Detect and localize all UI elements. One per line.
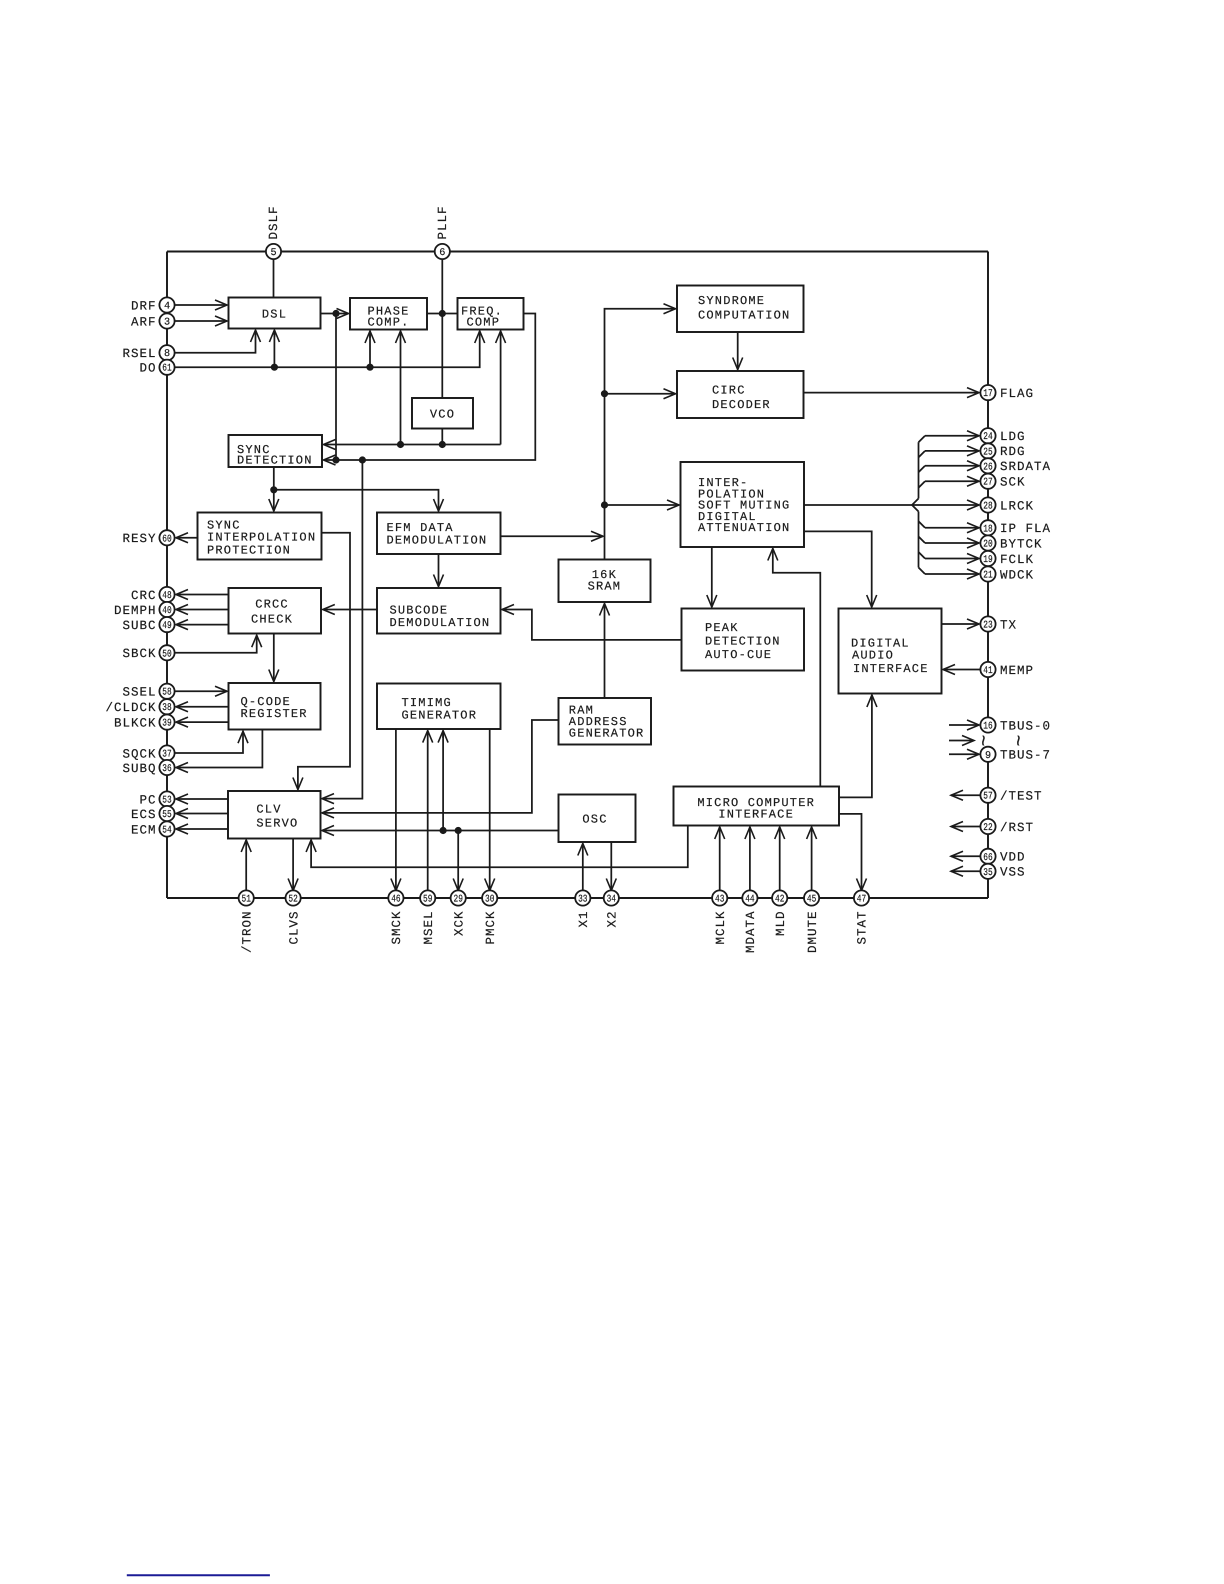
svg-text:DEMPH: DEMPH: [114, 604, 157, 618]
svg-text:PC: PC: [139, 793, 156, 807]
svg-text:27: 27: [983, 478, 992, 489]
svg-text:CIRC: CIRC: [712, 383, 746, 397]
svg-text:42: 42: [775, 895, 784, 906]
svg-text:SUBC: SUBC: [122, 619, 156, 633]
svg-text:46: 46: [391, 895, 400, 906]
svg-text:3: 3: [164, 318, 170, 329]
svg-text:PEAK: PEAK: [705, 621, 739, 635]
svg-text:20: 20: [983, 540, 992, 551]
svg-text:54: 54: [162, 826, 171, 837]
svg-text:50: 50: [162, 649, 171, 660]
svg-text:51: 51: [242, 895, 251, 906]
svg-text:REGISTER: REGISTER: [241, 707, 308, 721]
svg-text:DRF: DRF: [131, 299, 157, 313]
svg-text:28: 28: [983, 502, 992, 513]
svg-text:DETECTION: DETECTION: [705, 634, 781, 648]
svg-text:CHECK: CHECK: [251, 613, 293, 627]
svg-text:AUDIO: AUDIO: [852, 649, 894, 663]
svg-text:GENERATOR: GENERATOR: [402, 708, 478, 722]
svg-text:52: 52: [288, 895, 297, 906]
svg-text:66: 66: [983, 853, 992, 864]
svg-text:39: 39: [162, 719, 171, 730]
svg-text:SCK: SCK: [1000, 476, 1026, 490]
svg-text:55: 55: [162, 810, 171, 821]
svg-text:59: 59: [423, 895, 432, 906]
svg-text:ARF: ARF: [131, 315, 157, 329]
svg-text:DMUTE: DMUTE: [806, 911, 820, 954]
svg-text:TBUS-0: TBUS-0: [1000, 719, 1051, 733]
svg-text:58: 58: [162, 688, 171, 699]
svg-text:SUBQ: SUBQ: [122, 762, 156, 776]
svg-text:X1: X1: [577, 911, 591, 928]
svg-text:VSS: VSS: [1000, 866, 1026, 880]
svg-text:RESY: RESY: [122, 532, 156, 546]
svg-text:/TRON: /TRON: [240, 911, 254, 954]
svg-text:9: 9: [985, 751, 991, 762]
svg-text:DSLF: DSLF: [267, 205, 281, 239]
svg-text:29: 29: [454, 895, 463, 906]
svg-text:STAT: STAT: [856, 911, 870, 945]
svg-text:SERVO: SERVO: [256, 817, 298, 831]
svg-text:44: 44: [745, 895, 754, 906]
svg-text:INTERFACE: INTERFACE: [853, 662, 929, 676]
svg-text:RSEL: RSEL: [122, 347, 156, 361]
svg-text:SQCK: SQCK: [122, 747, 156, 761]
svg-text:TX: TX: [1000, 618, 1017, 632]
svg-text:33: 33: [578, 895, 587, 906]
svg-text:34: 34: [607, 895, 616, 906]
svg-text:CLV: CLV: [256, 803, 281, 817]
svg-text:PMCK: PMCK: [484, 911, 498, 945]
svg-text:ECS: ECS: [131, 808, 157, 822]
svg-text:5: 5: [270, 248, 276, 259]
svg-text:MCLK: MCLK: [714, 911, 728, 945]
svg-text:30: 30: [485, 895, 494, 906]
svg-text:SYNDROME: SYNDROME: [698, 294, 765, 308]
svg-text:LDG: LDG: [1000, 430, 1026, 444]
svg-text:/CLDCK: /CLDCK: [105, 701, 156, 715]
svg-text:AUTO-CUE: AUTO-CUE: [705, 648, 772, 662]
svg-text:ATTENUATION: ATTENUATION: [698, 521, 790, 535]
svg-text:18: 18: [983, 524, 992, 535]
svg-text:19: 19: [983, 555, 992, 566]
svg-text:ECM: ECM: [131, 823, 157, 837]
svg-text:VDD: VDD: [1000, 851, 1026, 865]
svg-text:8: 8: [164, 349, 170, 360]
svg-text:MDATA: MDATA: [744, 911, 758, 954]
svg-text:MLD: MLD: [774, 911, 788, 937]
svg-text:SRAM: SRAM: [588, 580, 622, 594]
svg-text:/RST: /RST: [1000, 821, 1034, 835]
svg-text:21: 21: [983, 571, 992, 582]
svg-text:MEMP: MEMP: [1000, 664, 1034, 678]
svg-text:SSEL: SSEL: [122, 686, 156, 700]
svg-text:BYTCK: BYTCK: [1000, 537, 1043, 551]
svg-text:PLLF: PLLF: [436, 205, 450, 239]
svg-text:~: ~: [1009, 734, 1032, 746]
svg-text:60: 60: [162, 534, 171, 545]
svg-text:SMCK: SMCK: [390, 911, 404, 945]
svg-text:BLKCK: BLKCK: [114, 716, 157, 730]
svg-text:25: 25: [983, 447, 992, 458]
svg-text:CLVS: CLVS: [287, 911, 301, 945]
svg-text:CRC: CRC: [131, 589, 157, 603]
svg-text:DO: DO: [139, 362, 156, 376]
svg-text:INTERFACE: INTERFACE: [718, 807, 794, 821]
svg-text:47: 47: [857, 895, 866, 906]
svg-text:4: 4: [164, 302, 170, 313]
svg-text:61: 61: [162, 364, 171, 375]
svg-text:24: 24: [983, 432, 992, 443]
svg-text:36: 36: [162, 764, 171, 775]
svg-text:DETECTION: DETECTION: [237, 454, 313, 468]
svg-text:40: 40: [162, 606, 171, 617]
svg-text:23: 23: [983, 621, 992, 632]
svg-text:PROTECTION: PROTECTION: [207, 543, 291, 557]
svg-text:22: 22: [983, 823, 992, 834]
svg-text:35: 35: [983, 868, 992, 879]
svg-text:FLAG: FLAG: [1000, 387, 1034, 401]
svg-text:53: 53: [162, 796, 171, 807]
svg-text:LRCK: LRCK: [1000, 499, 1034, 513]
svg-text:49: 49: [162, 621, 171, 632]
svg-text:COMP.: COMP.: [367, 316, 409, 330]
svg-text:COMP: COMP: [467, 316, 501, 330]
svg-text:38: 38: [162, 703, 171, 714]
svg-text:17: 17: [983, 389, 992, 400]
svg-text:/TEST: /TEST: [1000, 790, 1043, 804]
svg-text:CRCC: CRCC: [255, 597, 289, 611]
svg-text:26: 26: [983, 462, 992, 473]
svg-text:16: 16: [983, 722, 992, 733]
svg-text:SBCK: SBCK: [122, 647, 156, 661]
svg-text:SRDATA: SRDATA: [1000, 460, 1051, 474]
svg-text:GENERATOR: GENERATOR: [569, 726, 645, 740]
svg-text:57: 57: [983, 792, 992, 803]
svg-text:43: 43: [715, 895, 724, 906]
svg-text:41: 41: [983, 666, 992, 677]
svg-text:DSL: DSL: [262, 308, 287, 322]
svg-text:OSC: OSC: [582, 813, 607, 827]
svg-text:DEMODULATION: DEMODULATION: [387, 534, 488, 548]
svg-text:COMPUTATION: COMPUTATION: [698, 309, 790, 323]
svg-text:X2: X2: [606, 911, 620, 928]
svg-text:DECODER: DECODER: [712, 398, 771, 412]
svg-text:MSEL: MSEL: [422, 911, 436, 945]
svg-text:FCLK: FCLK: [1000, 553, 1034, 567]
svg-text:RDG: RDG: [1000, 445, 1026, 459]
svg-text:XCK: XCK: [452, 911, 466, 937]
svg-text:~: ~: [974, 734, 997, 746]
svg-text:WDCK: WDCK: [1000, 568, 1034, 582]
svg-text:TBUS-7: TBUS-7: [1000, 749, 1051, 763]
svg-text:DEMODULATION: DEMODULATION: [390, 616, 491, 630]
svg-text:VCO: VCO: [430, 408, 455, 422]
svg-text:48: 48: [162, 591, 171, 602]
svg-text:37: 37: [162, 750, 171, 761]
svg-text:6: 6: [439, 248, 445, 259]
svg-text:IP FLA: IP FLA: [1000, 522, 1051, 536]
svg-text:45: 45: [807, 895, 816, 906]
